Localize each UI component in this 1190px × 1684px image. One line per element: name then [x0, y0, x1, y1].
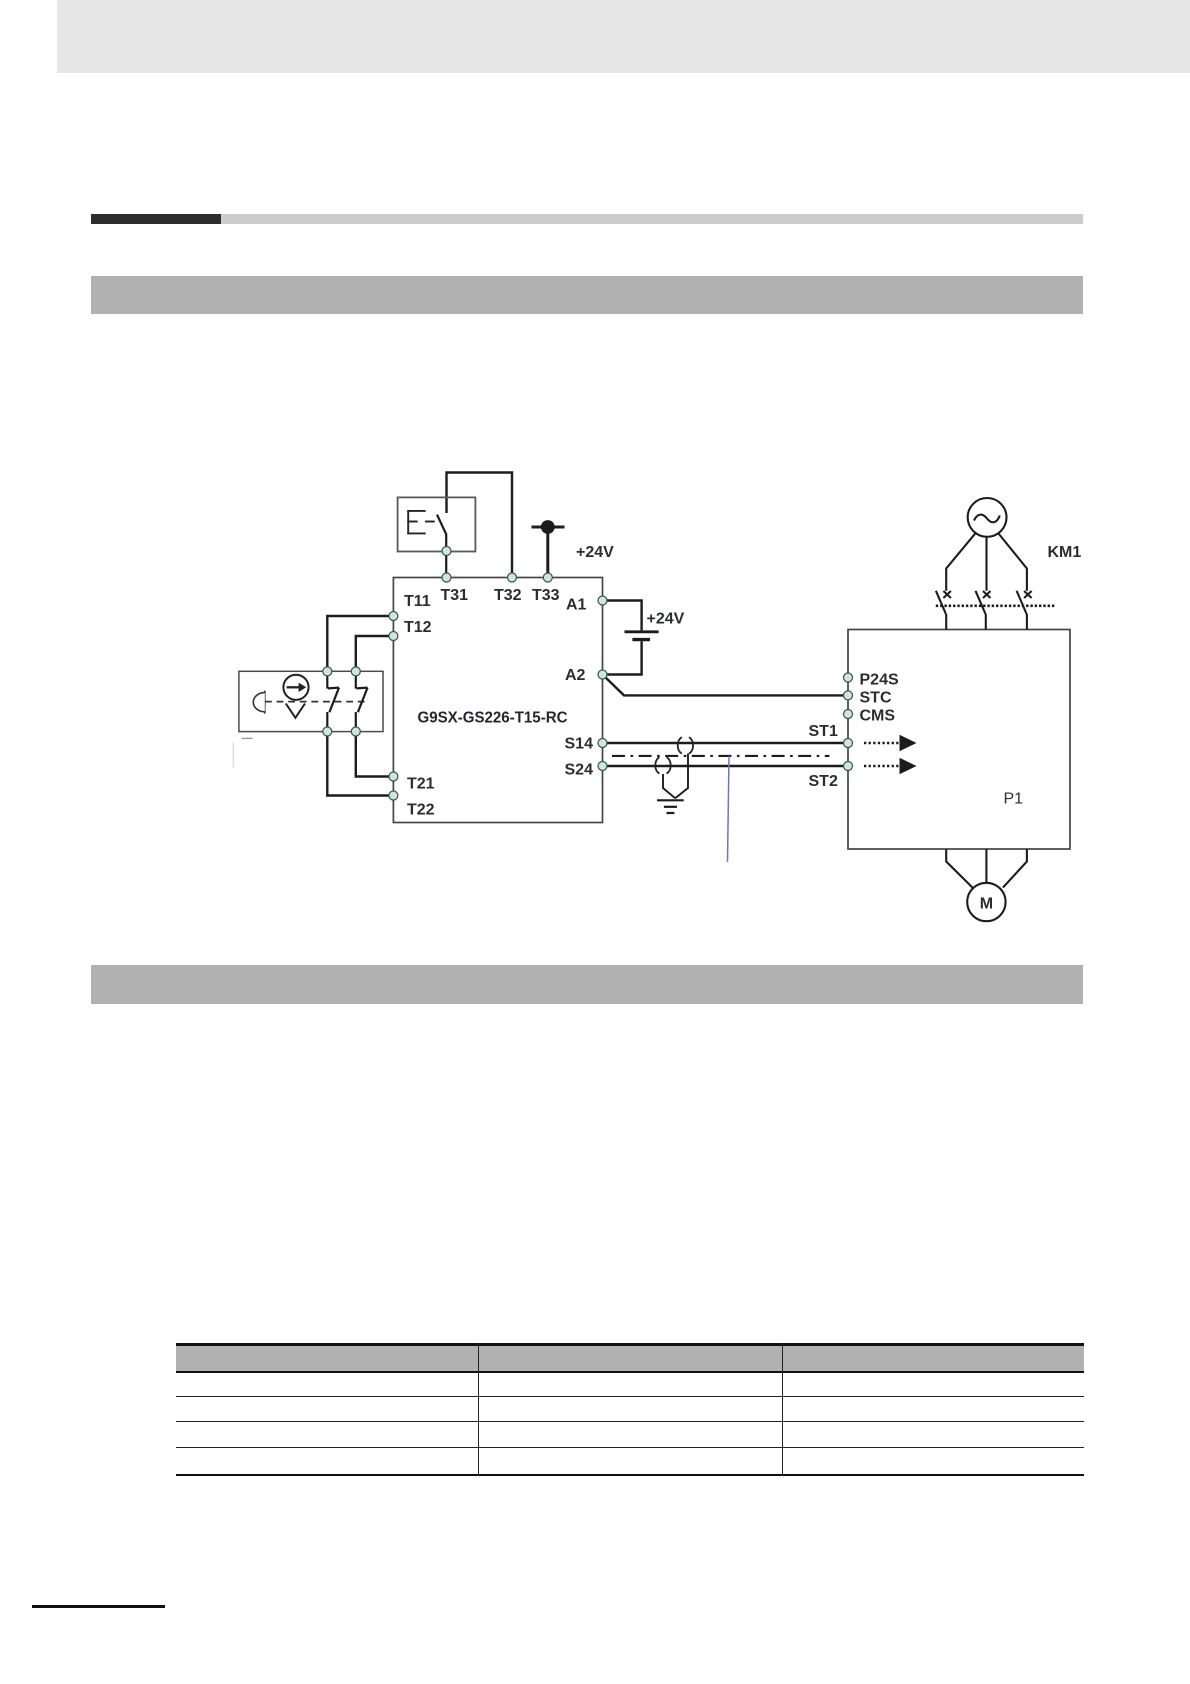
svg-text:+24V: +24V	[647, 611, 685, 628]
terminal T21	[389, 772, 398, 781]
table column divider 1	[478, 1343, 479, 1476]
wire T12 to OSSD2 top	[356, 636, 393, 671]
sensor receiver V	[286, 704, 305, 718]
contactor KM1 pole 3	[1017, 591, 1032, 630]
sensor OSSD2 contact	[356, 674, 368, 729]
wire OSSD1 bottom to T22	[327, 732, 393, 796]
header band	[57, 0, 1190, 73]
main unit G9SX-GS226-T15-RC box	[393, 578, 602, 823]
terminal S24	[598, 762, 607, 771]
svg-text:KM1: KM1	[1048, 544, 1082, 561]
terminal A1	[598, 596, 607, 605]
svg-text:S14: S14	[565, 736, 594, 753]
contactor KM1 pole 1	[936, 591, 951, 630]
svg-text:A1: A1	[566, 597, 587, 614]
section band 1	[91, 276, 1083, 314]
annotation leader line (blue)	[728, 756, 730, 862]
inverter P1 box	[848, 630, 1070, 850]
svg-text:A2: A2	[565, 667, 586, 684]
svg-text:P24S: P24S	[860, 672, 899, 689]
svg-text:ST1: ST1	[809, 723, 838, 740]
ghost mark under sensor box	[242, 737, 253, 739]
wires P1 to motor	[946, 849, 1027, 889]
node OSSD2 bottom	[351, 727, 360, 736]
shielded cable dash-dot line	[612, 755, 830, 757]
shield drain wires	[663, 754, 688, 799]
battery +24V between A1 and A2	[603, 601, 659, 675]
heading rule black segment	[91, 214, 221, 224]
contactor linkage dotted line	[936, 604, 1056, 607]
table row line 3	[176, 1447, 1084, 1448]
terminal S14	[598, 739, 607, 748]
wire OSSD2 bottom to T21	[356, 732, 393, 777]
sensor emitter half-disc	[253, 691, 265, 714]
footer rule	[32, 1605, 165, 1608]
ground symbol	[657, 800, 684, 813]
sensor dashed beam line	[265, 701, 368, 703]
table top border	[176, 1343, 1084, 1346]
terminal A2	[598, 670, 607, 679]
emergency stop NC contact blade	[437, 515, 446, 578]
terminal T31	[442, 573, 451, 582]
svg-text:ST2: ST2	[809, 773, 838, 790]
terminal T22	[389, 791, 398, 800]
terminal STC	[844, 691, 853, 700]
shield ring on S24 line	[655, 757, 670, 774]
svg-text:STC: STC	[860, 690, 892, 707]
node OSSD2 top	[351, 667, 360, 676]
svg-text:T21: T21	[407, 776, 435, 793]
wire A2 to STC	[603, 675, 849, 696]
svg-text:M: M	[980, 896, 993, 913]
terminal T11	[389, 612, 398, 621]
ST2 dotted arrow	[864, 758, 917, 774]
svg-text:T12: T12	[404, 619, 432, 636]
emergency stop E- glyph	[407, 510, 435, 534]
AC source circle	[968, 498, 1007, 537]
table header bottom border	[176, 1371, 1084, 1374]
contactor KM1 pole 2	[976, 591, 991, 630]
wire: emergency stop loop T31 to T32	[447, 473, 513, 578]
+24V supply rail (top)	[532, 520, 565, 577]
svg-text:P1: P1	[1004, 791, 1024, 808]
node OSSD1 top	[323, 667, 332, 676]
emergency stop switch S1 box	[398, 497, 476, 551]
table row line 1	[176, 1396, 1084, 1397]
table row line 2	[176, 1421, 1084, 1422]
svg-text:+24V: +24V	[576, 544, 614, 561]
svg-text:CMS: CMS	[860, 708, 896, 725]
table bottom border	[176, 1474, 1084, 1477]
svg-text:T22: T22	[407, 802, 435, 819]
terminal ST2	[844, 762, 853, 771]
heading rule light segment	[221, 214, 1083, 224]
svg-text:T33: T33	[532, 587, 560, 604]
terminal T33	[543, 573, 552, 582]
shield ring on S14 line	[678, 737, 693, 754]
svg-text:T31: T31	[441, 587, 469, 604]
node: switch lower terminal	[442, 547, 451, 556]
node OSSD1 bottom	[323, 727, 332, 736]
wire T11 to OSSD1 top	[327, 616, 393, 671]
table header row fill	[176, 1346, 1084, 1371]
svg-text:G9SX-GS226-T15-RC: G9SX-GS226-T15-RC	[418, 710, 568, 727]
motor M circle	[967, 883, 1005, 921]
terminal T32	[508, 573, 517, 582]
wire S24 to ST2	[603, 765, 849, 767]
terminal ST1	[844, 739, 853, 748]
photoelectric sensor box	[239, 671, 383, 731]
sensor OSSD1 contact	[327, 674, 339, 729]
wires AC source to contactor	[946, 533, 1027, 591]
svg-text:T11: T11	[404, 593, 431, 610]
table	[176, 1343, 1084, 1476]
section band 2	[91, 965, 1083, 1004]
ST1 dotted arrow	[864, 735, 917, 751]
svg-text:S24: S24	[565, 762, 594, 779]
wire S14 to ST1	[603, 742, 849, 744]
faint ghost strokes left of sensor box	[232, 743, 234, 768]
sensor output circle with arrow	[283, 675, 308, 700]
svg-text:T32: T32	[494, 587, 522, 604]
terminal T12	[389, 632, 398, 641]
table column divider 2	[782, 1343, 783, 1476]
terminal CMS	[844, 710, 853, 719]
terminal P24S	[844, 673, 853, 682]
